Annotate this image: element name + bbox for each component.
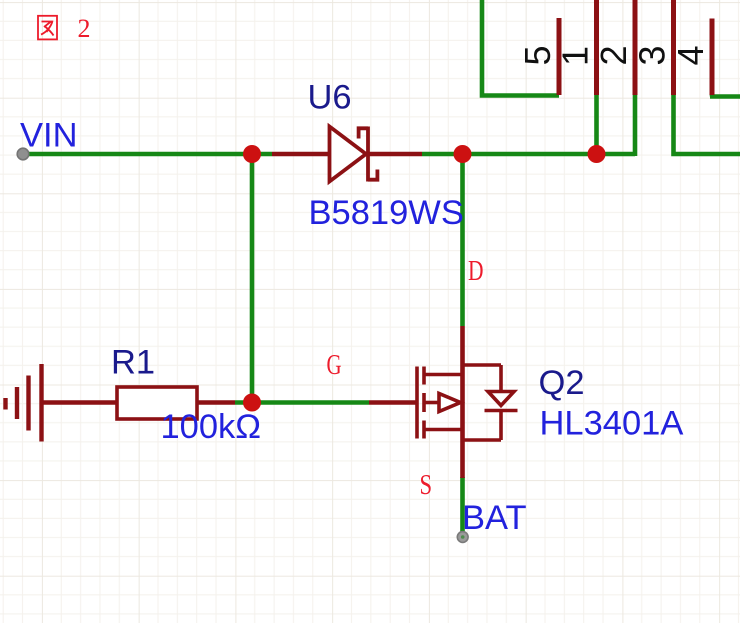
transistor Q2 gate plate	[415, 367, 419, 439]
body diode bottom connect	[463, 438, 502, 442]
transistor Q2 arrow	[439, 394, 461, 412]
wire source to BAT	[460, 477, 465, 532]
title text 图 2 (drawn glyph)	[38, 16, 57, 40]
connector pin 4 stub	[710, 19, 715, 96]
wire drain vertical	[460, 152, 465, 326]
transistor Q2 gate lead	[369, 400, 417, 405]
connector pin 3 stub	[671, 0, 676, 95]
svg-text:G: G	[327, 349, 342, 381]
svg-text:VIN: VIN	[20, 116, 78, 154]
resistor R1 right lead	[197, 400, 235, 405]
pin lead anode U6	[272, 152, 330, 157]
connector pin 2 stub	[633, 0, 638, 95]
wire pin2 vertical	[633, 94, 638, 156]
transistor Q2 source bar	[424, 428, 463, 432]
junction node gate/R1	[243, 394, 261, 412]
svg-text:Q2: Q2	[539, 364, 585, 402]
svg-text:BAT: BAT	[462, 499, 527, 537]
svg-text:B5819WS: B5819WS	[309, 194, 464, 232]
svg-text:HL3401A: HL3401A	[540, 405, 684, 443]
wire pin4 elbow	[710, 94, 740, 97]
junction node drain	[454, 145, 472, 163]
svg-text:100kΩ: 100kΩ	[161, 408, 262, 446]
svg-text:D: D	[468, 254, 483, 287]
wire vertical to R1 node	[250, 152, 255, 403]
wire pin1 vertical	[594, 94, 599, 154]
terminal VIN	[17, 148, 29, 160]
svg-text:U6: U6	[308, 79, 352, 117]
diode U6 triangle	[330, 127, 367, 182]
wire pin5 elbow	[482, 0, 559, 96]
junction node pin1	[588, 145, 606, 163]
resistor R1 left lead	[43, 400, 117, 405]
svg-text:2: 2	[78, 14, 91, 43]
pin lead cathode U6	[366, 152, 422, 157]
svg-text:5: 5	[517, 45, 558, 65]
svg-text:R1: R1	[111, 344, 155, 382]
svg-text:4: 4	[670, 45, 711, 65]
svg-text:2: 2	[593, 45, 634, 65]
body diode top connect	[463, 363, 502, 367]
junction node VIN/R1	[243, 145, 261, 163]
diode U6 schottky top hook	[359, 128, 368, 138]
wire gate horizontal	[235, 400, 369, 405]
body diode triangle	[488, 392, 514, 406]
diode U6 schottky bar	[366, 127, 370, 182]
transistor Q2 backbone	[460, 326, 465, 440]
diode U6 schottky bottom hook	[368, 170, 377, 180]
svg-text:1: 1	[555, 46, 596, 66]
wire VIN horizontal	[23, 152, 272, 157]
body diode lower vertical	[499, 411, 503, 441]
transistor Q2 source pin	[460, 440, 465, 478]
transistor Q2 bulk line	[424, 401, 439, 405]
transistor Q2 channel bars	[422, 367, 426, 439]
body diode cathode bar	[485, 409, 518, 413]
transistor Q2 drain bar	[424, 373, 463, 377]
ground symbol	[6, 364, 42, 442]
body diode upper vertical	[499, 365, 503, 392]
wire main bus right of diode	[422, 152, 635, 157]
svg-text:3: 3	[632, 45, 673, 65]
resistor R1 body	[117, 387, 197, 419]
connector pin 5 stub	[557, 18, 562, 95]
connector pin 1 stub	[594, 0, 599, 95]
wire pin3 elbow	[674, 94, 740, 154]
svg-text:S: S	[420, 468, 433, 500]
terminal BAT	[457, 532, 468, 543]
